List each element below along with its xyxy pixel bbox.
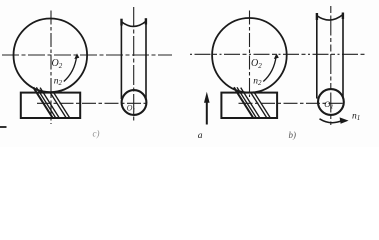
svg-text:O1: O1 bbox=[324, 99, 333, 111]
svg-text:a: a bbox=[198, 131, 203, 141]
svg-text:O2: O2 bbox=[52, 58, 63, 70]
svg-text:n2: n2 bbox=[253, 77, 262, 88]
svg-text:b): b) bbox=[289, 130, 297, 140]
svg-text:O2: O2 bbox=[251, 58, 262, 70]
svg-text:n2: n2 bbox=[54, 77, 63, 88]
svg-text:c): c) bbox=[93, 129, 100, 139]
svg-text:n1: n1 bbox=[352, 112, 360, 123]
